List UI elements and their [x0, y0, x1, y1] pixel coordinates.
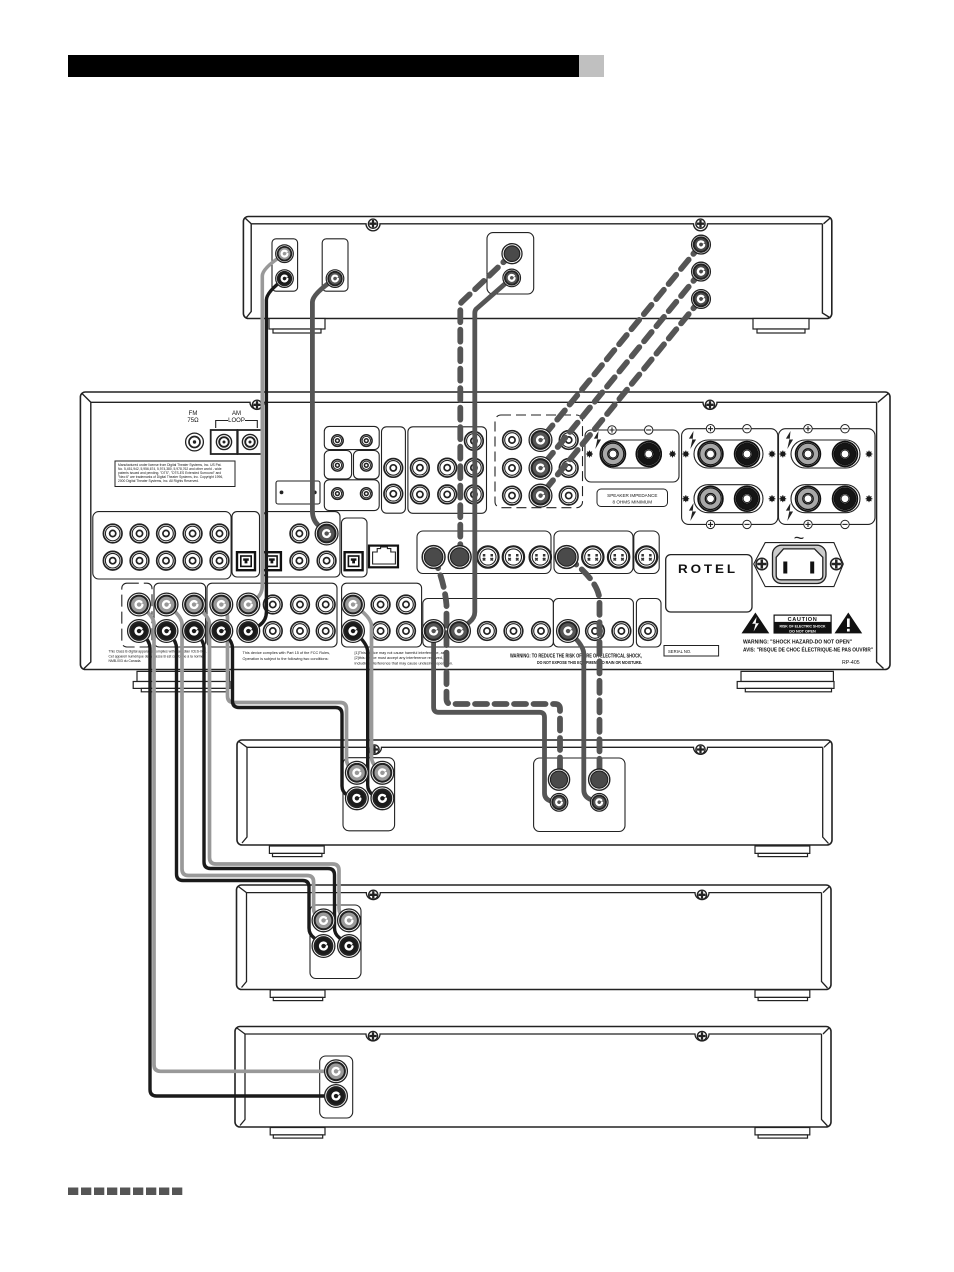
device3 plugged jacks [312, 909, 335, 932]
wire: receiver col1 black to device4 [139, 631, 336, 1096]
speaker group 2 box [682, 429, 778, 525]
svg-text:LOOP: LOOP [228, 418, 245, 424]
device2 screw left [370, 745, 379, 754]
bottom jack group box 5 [423, 599, 554, 648]
device4 foot right [755, 1128, 810, 1139]
top device jack T5 audio out plug [503, 269, 521, 287]
svg-text:This device complies with Part: This device complies with Part 15 of the… [243, 651, 331, 655]
optical connector 1 [237, 552, 255, 570]
svg-text:8 OHMS MINIMUM: 8 OHMS MINIMUM [613, 500, 653, 505]
speaker group center box [585, 430, 679, 482]
svg-text:CAUTION: CAUTION [788, 617, 818, 623]
receiver screw right [705, 400, 714, 409]
s-video group 2 box [554, 531, 633, 574]
top device chassis [243, 217, 831, 319]
FM coax connector [186, 433, 204, 451]
svg-text:75Ω: 75Ω [187, 418, 199, 424]
CAUTION label [774, 615, 832, 634]
component video 3x3 group (dashed border) [495, 415, 583, 508]
svg-text:WARNING: TO REDUCE THE RISK OF: WARNING: TO REDUCE THE RISK OF FIRE OR E… [510, 654, 642, 660]
device3 chassis [237, 885, 832, 990]
bottom white jacks row2 [264, 622, 283, 641]
top device foot left [269, 319, 325, 334]
wire: receiver col2 black to device3 left col [167, 631, 324, 945]
video jack group A [382, 427, 406, 513]
DTS license text box [115, 461, 235, 487]
svg-text:This Class B digital apparatus: This Class B digital apparatus complies … [109, 650, 207, 654]
wire: dashed top device video to receiver s-video [460, 254, 512, 557]
svg-text:SPEAKER IMPEDANCE: SPEAKER IMPEDANCE [607, 493, 657, 498]
top device jack T1 gray plug [276, 245, 294, 263]
bottom jack group box 7 [636, 599, 661, 648]
wire: receiver col3 black to device3 right col [194, 631, 349, 945]
svg-text:AVIS: "RISQUE DE CHOC ÉLECTRIQ: AVIS: "RISQUE DE CHOC ÉLECTRIQUE-NE PAS … [743, 646, 873, 654]
wire: top device black out L to receiver col5 bottom [250, 279, 285, 631]
bottom jack group box 6 [553, 599, 633, 648]
wire: receiver col4 black L-bend to device2 left group [221, 631, 357, 798]
device2 foot right [755, 846, 810, 857]
receiver bottom row2 plugged cols [128, 620, 151, 643]
wire: receiver video out to device2 bottom-left [434, 631, 558, 802]
top device screw left [368, 219, 377, 228]
top device right jack R2 [692, 262, 711, 281]
wire: receiver col3 gray to device3 right col [194, 605, 349, 921]
svg-text:2000 Digital Theater Systems,: 2000 Digital Theater Systems, Inc. All R… [118, 479, 199, 483]
device2 screw right [696, 745, 705, 754]
top device jack T2 black plug [276, 270, 294, 288]
svg-text:SERIAL NO.: SERIAL NO. [668, 649, 691, 654]
bottom jack group box 1 [122, 583, 152, 647]
wire: receiver audio out to device2 bottom-right [568, 631, 598, 802]
serial no box [664, 646, 719, 657]
audio input 2x5 group [93, 512, 231, 579]
svg-text:FM: FM [189, 411, 198, 417]
receiver chassis [80, 392, 890, 670]
optical group box 1 [232, 512, 260, 577]
device4 screw left [368, 1031, 377, 1040]
svg-text:DO NOT OPEN: DO NOT OPEN [789, 630, 816, 634]
wire: top device dark gray to receiver CD jack [312, 279, 335, 534]
top device middle jack group box [487, 233, 534, 294]
top device jack group 2 box [322, 239, 348, 291]
receiver foot right [737, 671, 834, 691]
speaker impedance label [597, 489, 668, 507]
svg-text:ROTEL: ROTEL [678, 564, 738, 576]
device3 screw right [697, 890, 706, 899]
receiver s-video plugged 1 [422, 546, 445, 569]
AC power inlet [754, 543, 844, 587]
receiver s-video plugged 3 [555, 546, 578, 569]
center binding post black [636, 442, 661, 467]
top device foot right [753, 319, 809, 334]
s-video group 1 box [417, 531, 551, 574]
wire: receiver col4 gray L-bend to device2 left group [221, 605, 357, 773]
legend dashed line [68, 1188, 185, 1196]
receiver s-video plugged 2 [448, 546, 471, 569]
device3 foot left [270, 990, 325, 1001]
svg-text:RP-405: RP-405 [842, 660, 860, 666]
AM loop bracket [216, 421, 258, 429]
receiver foot left [133, 671, 230, 691]
device3 jack group box [310, 905, 361, 979]
video jack group B [408, 427, 487, 514]
receiver screw left [252, 400, 261, 409]
digital jack group top [324, 426, 379, 449]
device4 jack group box [320, 1056, 353, 1118]
device2 foot left [269, 846, 324, 857]
device2 right jack group box [534, 758, 625, 832]
bottom white jacks row1 [264, 595, 283, 614]
optical connector 2 [263, 552, 281, 570]
center binding post gray [601, 442, 626, 467]
optical connector 3 [345, 552, 363, 570]
group2 posts [698, 442, 723, 467]
s-video group 3 box [634, 531, 659, 574]
svg-text:AM: AM [232, 411, 241, 417]
wire: receiver pair to device2 left group right col gray [353, 605, 382, 773]
bottom jack group box 4 [342, 583, 422, 647]
AM loop terminal 2 [238, 430, 263, 454]
receiver bottom row1 plugged cols [128, 593, 151, 616]
device4 screw right [697, 1031, 706, 1040]
top device jack group 1 box [272, 239, 298, 291]
group3 posts [796, 442, 821, 467]
wire: dashed receiver s-video to device2 top-left [434, 557, 560, 780]
receiver bottom row2 dark plugged [422, 620, 445, 643]
header gray square [579, 55, 604, 77]
receiver 3x3 plugged middle column [529, 429, 552, 452]
top device screw right [696, 219, 705, 228]
svg-text:Cet appareil numérique de la c: Cet appareil numérique de la classe B es… [109, 654, 204, 658]
wire: top device audio to receiver bottom row [460, 278, 512, 630]
top device right jack R1 [692, 235, 711, 254]
svg-text:NMB-003 du Canada.: NMB-003 du Canada. [109, 659, 142, 663]
device3 foot right [755, 990, 810, 1001]
header black bar [68, 55, 579, 77]
wire: receiver col2 gray to device3 left col [167, 605, 324, 921]
ROTEL logo box [666, 555, 752, 612]
receiver CD input plugged [315, 522, 338, 545]
svg-text:WARNING: "SHOCK HAZARD-DO NOT: WARNING: "SHOCK HAZARD-DO NOT OPEN" [743, 640, 852, 646]
device4 plugged jacks [325, 1060, 348, 1083]
wire: receiver col1 gray to device4 [139, 605, 336, 1072]
device2 left jack group box [343, 758, 395, 831]
warning triangle exclaim [835, 613, 863, 634]
digital coax group box [263, 512, 340, 577]
top device jack T3 dark plug [326, 270, 344, 288]
AM loop terminal 1 [211, 430, 238, 454]
top device right jack R3 [692, 290, 711, 309]
RJ45 jack [369, 546, 398, 568]
bottom jack group box 2 [154, 583, 206, 647]
device2 chassis [237, 740, 832, 845]
digital jack group bottom [324, 480, 379, 511]
svg-text:Operation is subject to the fo: Operation is subject to the following tw… [243, 657, 329, 661]
svg-text:DO NOT EXPOSE THIS EQUIPMENT T: DO NOT EXPOSE THIS EQUIPMENT TO RAIN OR … [537, 660, 642, 665]
digital jack group mid-left [324, 451, 351, 479]
digital jack group mid-right [354, 451, 380, 479]
device2 right group audio plugged [550, 794, 568, 812]
bottom jack group box 3 [207, 583, 337, 647]
wire: dashed diagonal 2 component [541, 272, 702, 468]
blank plate with screws [276, 481, 320, 504]
top device jack T4 video out dark [502, 244, 522, 264]
svg-text:RISK OF ELECTRIC SHOCK: RISK OF ELECTRIC SHOCK [780, 625, 826, 629]
wire: top device gray out L to receiver col5 top [249, 254, 285, 604]
optical group box 3 [342, 518, 368, 577]
device4 chassis [235, 1027, 831, 1128]
device2 right group s-video plugged [548, 769, 569, 790]
device4 foot left [270, 1128, 325, 1139]
wire: dashed receiver s-video2 to device2 top-right [567, 557, 600, 780]
device2 left group plugged jacks [346, 761, 369, 784]
wire: dashed diagonal 3 component [541, 299, 702, 496]
wire: dashed diagonal 1 component [541, 245, 702, 440]
wire: receiver pair to device2 left group right col black [353, 631, 382, 798]
device3 screw left [369, 890, 378, 899]
speaker group 3 box [779, 429, 876, 525]
warning triangle lightning [742, 613, 770, 634]
